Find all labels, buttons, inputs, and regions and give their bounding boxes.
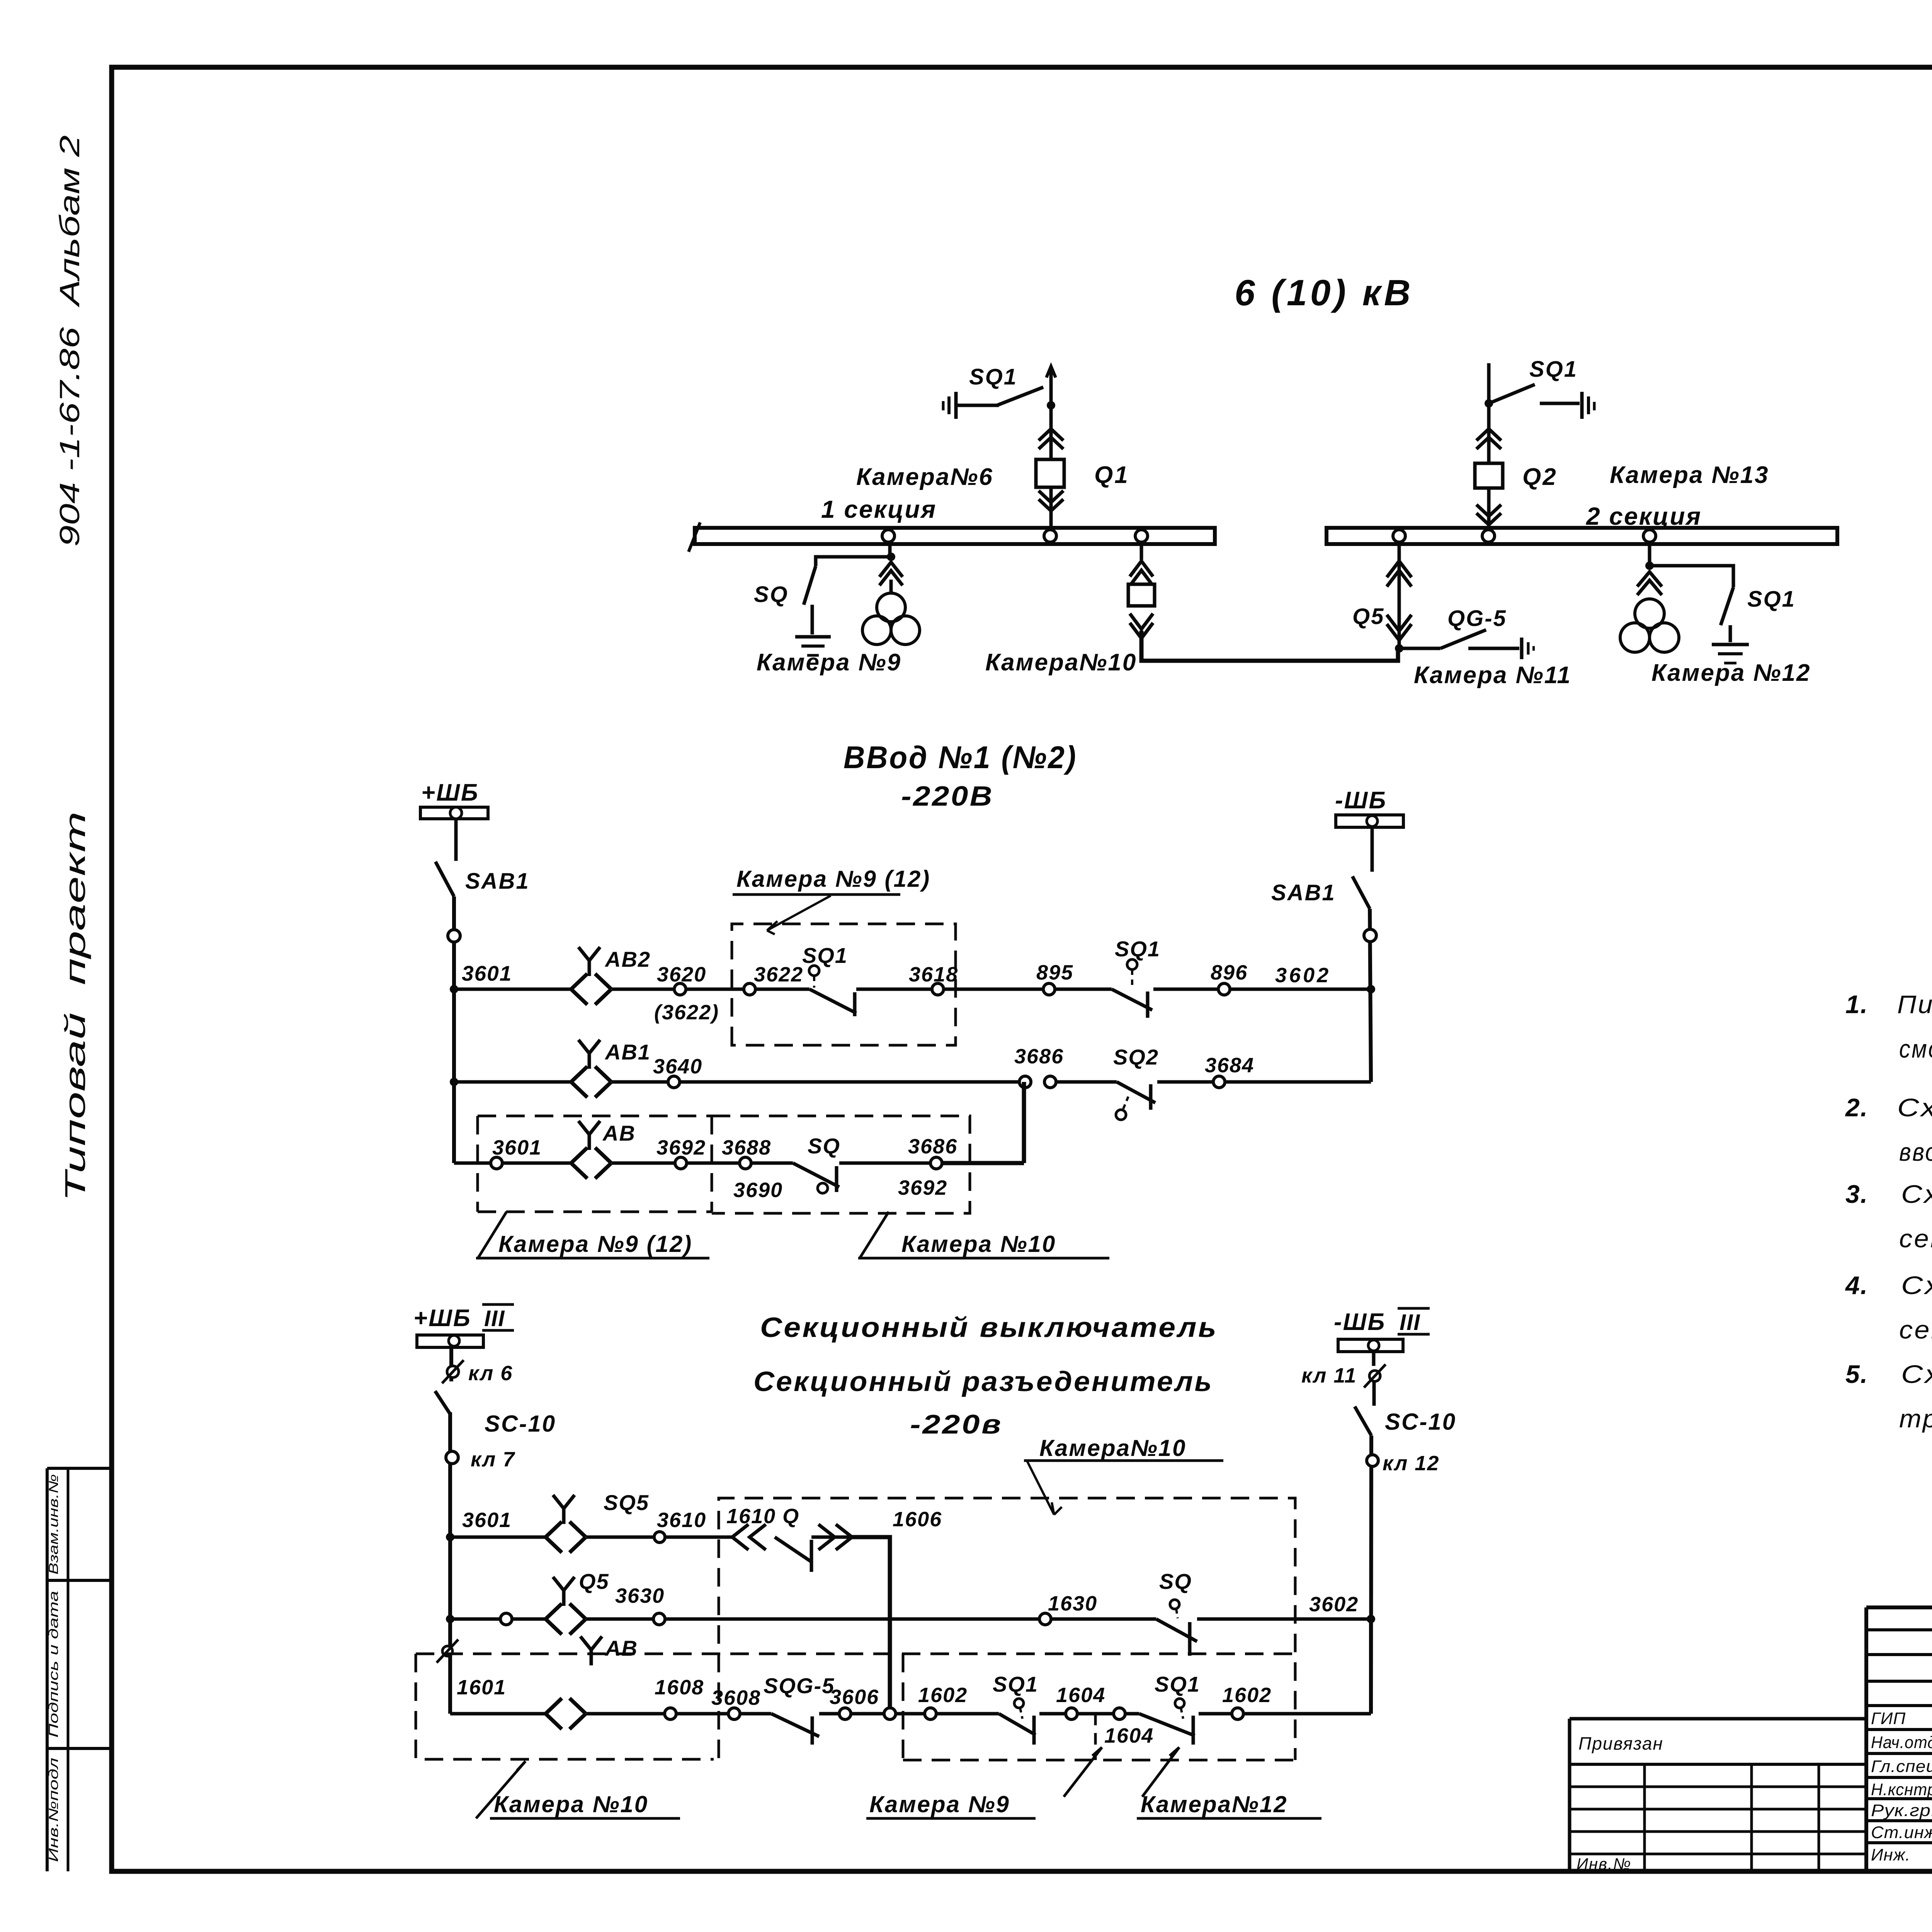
svg-text:1606: 1606 (893, 1508, 942, 1531)
signature row Ст.инж Кравцова (1871, 1822, 1932, 1844)
contact circle 1602 right (1232, 1708, 1243, 1719)
contact circle 3686 second (1044, 1076, 1056, 1088)
busbar section 2 (2 секция) (1327, 528, 1837, 544)
wire connector to 3630 (586, 1617, 653, 1621)
transformer T9 (three windings) (862, 593, 920, 645)
wire connector to 3692 (612, 1162, 675, 1165)
svg-text:кл 11: кл 11 (1301, 1364, 1357, 1387)
svg-text:Н.кснтр: Н.кснтр (1871, 1780, 1932, 1799)
disconnector chevrons right (836, 1524, 852, 1550)
connector symbol YAB2 (571, 974, 587, 1005)
SQ1 rowC-2 stem circle (1175, 1699, 1184, 1708)
wire SQ to 3686 row3 (839, 1162, 930, 1165)
limit switch SQ1 contact blade (box) (810, 989, 856, 1013)
svg-text:ввода 1(2) листы ЭС-11 , ЭС: ввода 1(2) листы ЭС-11 , ЭС-12 , ЭС-13, … (1899, 1138, 1932, 1166)
contact circle 3692 (675, 1157, 687, 1169)
svg-text:SQG-5: SQG-5 (764, 1673, 835, 1698)
svg-text:Инв.№: Инв.№ (1577, 1855, 1631, 1873)
signature row Нач.отд Давыдов (1871, 1732, 1932, 1753)
wire connector to 3610 (586, 1536, 654, 1539)
svg-text:Камера№12: Камера№12 (1141, 1791, 1288, 1817)
switch SC-10 right blade (1355, 1406, 1371, 1435)
node junction Q5/QG-5 (1395, 644, 1403, 653)
wire 1602 to right rail corner (1243, 1712, 1371, 1716)
wire 3610 to disconnector Q (665, 1536, 731, 1539)
busbar section 1 (1 секция) (689, 522, 1215, 552)
SQ2 hook (1149, 1084, 1153, 1110)
wire 3608 to SQG5 blade (740, 1712, 771, 1716)
wire rowC from left rail (450, 1712, 546, 1716)
limit switch SQ1 rowC-2 blade (1139, 1714, 1195, 1736)
svg-text:QG-5: QG-5 (1447, 606, 1507, 631)
svg-text:3601: 3601 (492, 1136, 542, 1159)
node on busbar 1 for Камера N10 branch (1135, 530, 1148, 542)
wire SQG5 to 3606 (819, 1712, 839, 1716)
signature row ГИП Леонов (1871, 1708, 1932, 1730)
wire 1630 to SQ rowB (1051, 1617, 1156, 1621)
Q1 upper chevrons (up) (1039, 429, 1063, 440)
Y of YSQ5 (553, 1495, 575, 1524)
Q1 lower chevrons (down) (1039, 491, 1063, 502)
node 3602 lower (1367, 1615, 1375, 1623)
ground symbol left SQ1 (943, 392, 956, 419)
wire 896 to node 3602 (1230, 988, 1371, 991)
Y of YQ5 (553, 1577, 575, 1606)
svg-text:1604: 1604 (1104, 1724, 1154, 1747)
svg-text:Камера №11: Камера №11 (1414, 662, 1571, 689)
svg-text:3684: 3684 (1205, 1054, 1254, 1077)
svg-text:Камера №12: Камера №12 (1651, 660, 1811, 686)
disconnector blade rowA (775, 1537, 811, 1562)
svg-text:SQ1: SQ1 (1747, 587, 1796, 612)
svg-text:-ШБ: -ШБ (1335, 787, 1387, 814)
disconnector QG-5 wire (1399, 647, 1440, 650)
dashed box Камера N9(12) lower (478, 1116, 712, 1212)
left rail lower section (450, 1347, 451, 1714)
contact circle riser bottom (884, 1708, 896, 1719)
wire SQ1 to 1604 (1039, 1712, 1066, 1716)
leader line Камера N10 lower (476, 1761, 526, 1818)
svg-text:Схема электрическая принцип: Схема электрическая принципиальная (1901, 1180, 1932, 1208)
svg-text:SQ1: SQ1 (1529, 357, 1578, 382)
signature row Рук.гр. Чапны (1871, 1800, 1932, 1821)
wire 3640 to 3686 junction (680, 1080, 1019, 1084)
svg-text:ВВод №1 (№2): ВВод №1 (№2) (844, 740, 1077, 775)
svg-text:Камера №9: Камера №9 (869, 1791, 1010, 1817)
svg-text:2 секция: 2 секция (1586, 502, 1702, 530)
svg-text:1.: 1. (1845, 990, 1868, 1019)
wire junction to SQ1 earth switch (1650, 566, 1733, 587)
SQ rowB stem dash (1176, 1609, 1178, 1618)
breaker Q2 box (1475, 463, 1503, 488)
svg-text:3630: 3630 (615, 1584, 665, 1607)
svg-text:Q2: Q2 (1522, 464, 1558, 490)
svg-text:1602: 1602 (1222, 1684, 1272, 1707)
svg-text:(3622): (3622) (654, 1001, 719, 1024)
earth switch SQ1 (left) blade (997, 387, 1043, 405)
leader line Камера N12 lower (1142, 1747, 1179, 1797)
contact circle 3601 row3 (491, 1157, 502, 1169)
svg-text:Схема электрическая принципи: Схема электрическая принципиальная (1897, 1093, 1932, 1122)
dashed divider Камера N9/N12 (1094, 1714, 1097, 1760)
wire blade to chevrons right (811, 1536, 852, 1539)
wire Q5 branch vertical (1398, 544, 1401, 648)
wire row1 left segment (454, 988, 571, 991)
left margin stamp column table (47, 1468, 112, 1871)
SQG-5 hook (811, 1716, 814, 1745)
clamp кл6 (447, 1366, 459, 1378)
wire 1606 corner and riser down (852, 1537, 890, 1708)
svg-text:SQ1: SQ1 (1155, 1672, 1200, 1696)
Y of YAB rowC (580, 1636, 602, 1665)
wire 1602 to SQ1 rowC (936, 1712, 999, 1716)
svg-text:Типовай праект: Типовай праект (59, 811, 91, 1202)
connector symbol YQ5 (546, 1604, 562, 1634)
svg-text:Камера №13: Камера №13 (1610, 462, 1769, 488)
Y of YAB2 (578, 947, 600, 976)
wire 3601 to connector (502, 1162, 571, 1165)
svg-text:3686: 3686 (908, 1135, 957, 1158)
svg-text:SQ1: SQ1 (1115, 937, 1160, 961)
dashed box lower-middle bottom (903, 1759, 1295, 1762)
contact circle 3620 (674, 983, 686, 995)
contact circle 896 (1218, 983, 1230, 995)
svg-text:6 (10) кВ: 6 (10) кВ (1235, 272, 1413, 313)
breaker Q1 box (1036, 459, 1064, 487)
svg-text:III: III (1400, 1310, 1420, 1335)
contact circle 1604 left (1066, 1708, 1077, 1719)
Камера N9 chevrons (up) (879, 562, 903, 577)
leader line Камера N9(12) lower (478, 1212, 507, 1258)
svg-text:1608: 1608 (655, 1676, 704, 1699)
svg-text:1602: 1602 (918, 1684, 968, 1707)
wire 3688 to SQ blade (751, 1162, 793, 1165)
wire 3692 to 3688 (687, 1162, 740, 1165)
svg-text:3618: 3618 (909, 963, 958, 986)
svg-text:SQ1: SQ1 (969, 364, 1017, 389)
contact circle 3686 row3 (930, 1157, 942, 1169)
svg-text:+ШБ: +ШБ (413, 1305, 471, 1332)
svg-text:1604: 1604 (1056, 1684, 1105, 1707)
leader line Камера N10 upper label (1027, 1461, 1062, 1515)
contact circle 3684 (1213, 1076, 1225, 1088)
SQ row3 stem circle (818, 1183, 828, 1193)
wire 3606 to riser junction (851, 1712, 884, 1716)
svg-text:2.: 2. (1845, 1093, 1868, 1122)
wire to transformer (889, 580, 893, 593)
wire SQ1 to ground (956, 404, 999, 407)
ground symbol Камера N12 (1712, 645, 1749, 663)
svg-text:1630: 1630 (1048, 1592, 1097, 1615)
wire 3622 to SQ1 blade (755, 988, 810, 991)
wire SQ1 to 3618 (856, 988, 932, 991)
SQ rowB stem circle (1170, 1600, 1179, 1609)
svg-text:SQ: SQ (754, 582, 789, 607)
svg-text:АВ2: АВ2 (604, 947, 651, 971)
wire rowB left (450, 1617, 500, 1621)
contact circle on left rail (448, 930, 460, 942)
left rail corner to row3 (454, 1162, 491, 1165)
node rowB left (446, 1615, 454, 1623)
SQ1 hook (853, 992, 857, 1016)
right rail lower section (1371, 1435, 1371, 1714)
limit switch SQ2 blade (1117, 1082, 1155, 1103)
node 3601 rowA (446, 1533, 454, 1541)
wire кл11 to SC-10 right (1372, 1382, 1376, 1406)
bus +ШБ III symbol (417, 1335, 483, 1347)
svg-text:Камера№10: Камера№10 (1039, 1435, 1187, 1461)
svg-text:АВ1: АВ1 (604, 1040, 651, 1064)
wire row1 to contact 3620 (612, 988, 674, 991)
disconnector 1610 Q chevrons left (732, 1524, 748, 1550)
svg-text:секционного разъеданителя ли: секционного разъеданителя листы ЭС-21 , … (1899, 1315, 1932, 1344)
node on busbar 2 for Q5 branch (1393, 530, 1405, 542)
svg-text:Взам.инв.№: Взам.инв.№ (46, 1474, 61, 1575)
svg-text:SQ1: SQ1 (993, 1672, 1038, 1696)
contact circle 895 (1043, 983, 1055, 995)
svg-text:Ст.инж: Ст.инж (1871, 1823, 1932, 1842)
transformer T12 (three windings) (1620, 599, 1679, 652)
ground symbol right SQ1 (1582, 392, 1594, 419)
svg-text:3686: 3686 (1014, 1045, 1064, 1068)
node junction Q1/SQ1 (1047, 401, 1055, 410)
SQ1-2 stem circle (1127, 959, 1137, 969)
svg-text:III: III (484, 1306, 505, 1331)
svg-text:ГИП: ГИП (1871, 1709, 1906, 1728)
wire SQ1-2 to 896 (1153, 988, 1218, 991)
wire 895 to SQ1-2 (1055, 988, 1112, 991)
svg-text:3.: 3. (1845, 1180, 1868, 1208)
svg-text:1 секция: 1 секция (821, 495, 937, 523)
node junction Камера N12 (1645, 561, 1654, 570)
svg-text:3606: 3606 (830, 1685, 879, 1709)
wire from +ШБ down (454, 819, 458, 861)
QG-5 blade (1440, 630, 1486, 648)
node row2 left (450, 1078, 458, 1086)
title block Привязан table (1570, 1719, 1866, 1871)
svg-text:3622: 3622 (754, 963, 803, 986)
svg-text:5.: 5. (1845, 1360, 1868, 1388)
svg-text:Подпись и дата: Подпись и дата (46, 1591, 61, 1738)
wire 3686 to SQ2 (1056, 1080, 1117, 1084)
svg-text:3690: 3690 (733, 1179, 783, 1202)
Q2 upper chevrons (up) (1476, 429, 1501, 440)
svg-text:SAB1: SAB1 (465, 869, 530, 894)
signature table grid (1866, 1607, 1932, 1871)
signature row Н.кснтр Залотарева (1871, 1779, 1932, 1801)
clamp кл11 (1369, 1371, 1380, 1381)
svg-text:SQ1: SQ1 (802, 943, 848, 968)
svg-text:-220в: -220в (910, 1409, 1003, 1439)
dashed box Камера N10 big top (719, 1498, 1295, 1760)
SQ1 stem circle (809, 966, 819, 976)
svg-text:SQ2: SQ2 (1113, 1045, 1159, 1069)
svg-text:Инж.: Инж. (1871, 1845, 1910, 1864)
svg-text:3692: 3692 (656, 1136, 706, 1159)
wire row2 left segment (454, 1080, 571, 1084)
svg-text:3692: 3692 (898, 1176, 947, 1199)
wire 1604 to 1604b (1077, 1712, 1114, 1716)
svg-text:+ШБ: +ШБ (421, 779, 479, 806)
wire QG-5 to ground (1468, 647, 1519, 650)
svg-text:Камера №10: Камера №10 (494, 1791, 648, 1817)
contact circle кл7 (446, 1451, 458, 1464)
Y of YAB1 (578, 1040, 600, 1069)
contact circle on right rail (1364, 929, 1376, 942)
wire Камера N10 down and across to Q5 (1141, 631, 1398, 661)
contact circle 3630 (653, 1613, 665, 1625)
svg-text:4.: 4. (1845, 1271, 1868, 1299)
wire Камера N12 branch vertical (1648, 544, 1651, 566)
SQ1 rowC-1 hook (1032, 1716, 1036, 1745)
Камера N12 chevrons (up) (1637, 572, 1662, 587)
SQ1 rowC-1 stem dash (1020, 1708, 1022, 1719)
limit switch SQ row3 blade (793, 1163, 839, 1187)
switch SAB1 (left) blade (435, 862, 454, 896)
wire from -ШБ down (1371, 827, 1374, 872)
limit switch SQ rowB blade (1156, 1619, 1197, 1641)
leader line Камера N10 row3 (860, 1212, 889, 1258)
earth switch SQ blade (804, 566, 816, 605)
contact circle 3606 (839, 1708, 851, 1719)
wire stub above Q2 junction (1487, 363, 1491, 403)
wire row2 to 3640 (612, 1080, 668, 1084)
SQ1 rowC-1 stem circle (1014, 1699, 1024, 1708)
svg-text:Инв.№подл: Инв.№подл (46, 1758, 61, 1862)
svg-text:кл 12: кл 12 (1383, 1452, 1439, 1475)
bus +ШБ symbol (420, 807, 488, 819)
svg-text:Q1: Q1 (1094, 462, 1129, 488)
contact circle rowB left (500, 1613, 512, 1625)
node junction Камера N9 (887, 553, 895, 561)
svg-text:Схема электрическая принципи: Схема электрическая принципиальная (1901, 1360, 1932, 1388)
node on busbar 2 for Q2 branch (1482, 530, 1495, 542)
contact circle 3622 (744, 983, 755, 995)
wire riser junction to 1602 (896, 1712, 925, 1716)
connector symbol YAB rowC (546, 1698, 562, 1729)
limit switch SQ1 rowC-1 blade (999, 1714, 1036, 1735)
SQ row3 hook (835, 1166, 838, 1192)
svg-text:Гл.спец: Гл.спец (1871, 1757, 1932, 1776)
svg-text:Камера №10: Камера №10 (901, 1231, 1056, 1257)
svg-text:трансформатора напряжения ли: трансформатора напряжения листы ЭС-16 ,Э… (1899, 1404, 1932, 1433)
svg-text:895: 895 (1036, 961, 1073, 984)
Камера N10 chevrons (up) (1130, 561, 1153, 577)
node on busbar 1 for Камера N9 branch (882, 530, 895, 542)
svg-text:SQ: SQ (1159, 1569, 1192, 1594)
leader line Камера N9 lower (1064, 1747, 1102, 1797)
signature row Инж. Лупеко (1871, 1844, 1932, 1866)
svg-text:секционного выключателя лист: секционного выключателя листы ЭС-14, ЭС-… (1899, 1224, 1932, 1253)
wire 3618 to 895 (944, 988, 1043, 991)
contact circle 3608 (728, 1708, 740, 1719)
svg-text:Секционный разъеденитель: Секционный разъеденитель (753, 1366, 1213, 1397)
svg-text:Рук.гр.: Рук.гр. (1871, 1801, 1932, 1820)
wire connector to 1608 (586, 1712, 665, 1716)
wire SQ1-2 to 1602 right (1199, 1712, 1232, 1716)
earth switch SQ1 blade (Камера N12) (1721, 587, 1733, 625)
node 3601 row1 (450, 985, 458, 993)
svg-text:3601: 3601 (462, 961, 512, 985)
wire Q1 branch vertical (1049, 405, 1053, 528)
wire Камера N10 branch vertical (1140, 544, 1143, 560)
svg-text:SAB1: SAB1 (1271, 880, 1336, 905)
svg-text:1610 Q: 1610 Q (726, 1505, 799, 1528)
svg-text:-220В: -220В (901, 781, 994, 812)
svg-text:Q5: Q5 (579, 1569, 609, 1594)
svg-text:Камера №9 (12): Камера №9 (12) (736, 866, 930, 892)
svg-text:3620: 3620 (657, 963, 706, 986)
node on busbar 2 for Камера N12 branch (1643, 530, 1656, 542)
right rail of Ввод section (1370, 909, 1371, 1082)
wire Камера N9 branch vertical (888, 544, 892, 557)
wire 3620 to 3622 (686, 988, 744, 991)
svg-text:SQ: SQ (808, 1134, 840, 1158)
contact circle 1604 right (1114, 1708, 1125, 1719)
wire SQ2 to 3684 (1157, 1080, 1213, 1084)
svg-text:Нач.отд: Нач.отд (1871, 1733, 1932, 1752)
wire SQ1 to ground (right) (1540, 402, 1580, 405)
earth switch SQ1 (right) blade (1489, 384, 1535, 403)
ground symbol QG-5 (1522, 638, 1534, 659)
wire 1604b to SQ1 rowC-2 (1125, 1712, 1139, 1716)
wire stub above junction with arrow (1049, 368, 1053, 405)
svg-text:АВ: АВ (604, 1636, 638, 1660)
svg-text:904 -1-67.86 Альбам 2: 904 -1-67.86 Альбам 2 (54, 135, 85, 547)
svg-text:Камера№10: Камера№10 (985, 649, 1137, 676)
wire 1608 to 3608 (676, 1712, 728, 1716)
clamp on left rail lower (442, 1646, 452, 1656)
svg-text:Камера№6: Камера№6 (856, 464, 993, 490)
wire junction to SQ earth switch (816, 557, 891, 566)
svg-text:3602: 3602 (1275, 964, 1331, 987)
contact circle 3618 (932, 983, 944, 995)
SQ rowB hook (1188, 1622, 1192, 1656)
bus -ШБ III symbol (1338, 1339, 1403, 1352)
connector symbol YAB1 (571, 1066, 587, 1097)
connector symbol YSQ5 (546, 1522, 562, 1553)
contact circle 1630 (1039, 1613, 1051, 1625)
svg-text:АВ: АВ (602, 1121, 636, 1145)
bus -ШБ symbol (1336, 815, 1403, 827)
SQ1-2 hook (1146, 992, 1150, 1018)
dashed box Камера N9(12) upper (732, 924, 956, 1045)
wire to YQ5 (512, 1617, 546, 1621)
svg-text:кл 6: кл 6 (468, 1362, 513, 1385)
left rail of Ввод section (452, 896, 456, 1163)
contact circle 3610 (654, 1532, 665, 1543)
limit switch SQ1-2 blade (1112, 989, 1152, 1010)
svg-text:Схема электрическая принципи: Схема электрическая принципиальная (1901, 1271, 1932, 1299)
Y of YAB row3 (578, 1121, 600, 1150)
dashed box lower-middle left edge (902, 1654, 905, 1760)
right rail corner up (1369, 1619, 1373, 1714)
connector symbol YAB row3 (571, 1148, 587, 1179)
Q5 chevrons (up) (1387, 561, 1412, 577)
Камера N10 chevrons (down) (1130, 614, 1153, 629)
disconnector hook rowA (810, 1540, 813, 1572)
contact circle 3686 junction (1019, 1076, 1031, 1088)
svg-text:Привязан: Привязан (1578, 1733, 1663, 1753)
ground symbol Камера N9 (795, 637, 831, 655)
svg-text:кл 7: кл 7 (471, 1448, 515, 1471)
svg-text:смотреть лист ЭС-25: смотреть лист ЭС-25 (1899, 1034, 1932, 1063)
contact circle 3688 (740, 1157, 751, 1169)
svg-text:Q5: Q5 (1352, 604, 1384, 629)
node junction Q2/SQ1 (1485, 399, 1493, 408)
svg-text:896: 896 (1211, 961, 1248, 984)
svg-text:Питание шинок +ШБ; -ШБ: Питание шинок +ШБ; -ШБ (1897, 990, 1932, 1019)
